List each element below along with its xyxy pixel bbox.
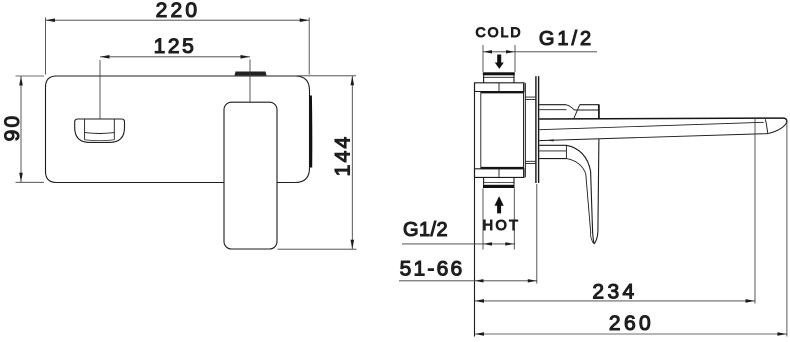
- spout (side view): [539, 118, 787, 141]
- svg-text:125: 125: [154, 35, 197, 58]
- svg-text:51-66: 51-66: [400, 257, 465, 280]
- spout outlet inner line: [765, 119, 767, 133]
- body bottom flange: [475, 169, 525, 178]
- 234 dimension: [475, 119, 756, 304]
- grip front thick edge: [598, 105, 600, 119]
- cold thread: [483, 72, 515, 75]
- handle (front view, end-on): [75, 119, 125, 142]
- hot thread: [483, 185, 515, 188]
- dim line 260: [475, 333, 787, 335]
- ext line spout bottom to 144: [278, 248, 357, 250]
- dim line 144: [351, 76, 353, 249]
- ext line spout tip: [786, 120, 788, 337]
- ext lines cold pipe: [482, 45, 484, 72]
- spout bottom edge: [539, 134, 768, 141]
- hot flow arrow: [495, 196, 504, 213]
- dimension 90: [16, 76, 45, 182]
- svg-text:G1/2: G1/2: [403, 219, 448, 241]
- svg-text:144: 144: [332, 135, 355, 177]
- svg-text:220: 220: [156, 0, 201, 22]
- dimension 125: [100, 55, 250, 119]
- ext line at spout centre: [249, 60, 251, 103]
- wall plate (front view): [46, 76, 310, 183]
- 260 dimension: [475, 120, 787, 337]
- body-plate connecting studs: [525, 97, 535, 164]
- aerator bar on plate top edge: [235, 72, 267, 76]
- ext line at handle centre: [99, 60, 101, 119]
- dimension 220: [46, 18, 310, 75]
- small dark mark under spout at plate: [546, 139, 554, 141]
- dimension 144: [278, 76, 357, 249]
- dim line 90: [20, 76, 22, 182]
- blade front edge: [594, 139, 599, 244]
- svg-text:G1/2: G1/2: [539, 28, 594, 50]
- body main block: [481, 83, 526, 177]
- ext line plate top-left: [16, 75, 45, 77]
- hot G1/2 dimension: [402, 188, 515, 249]
- svg-text:260: 260: [609, 312, 654, 335]
- spout (front view, end-on): [224, 102, 277, 249]
- dim line 125: [100, 56, 250, 58]
- hot inlet fitting: [484, 177, 514, 184]
- blade inner curve: [566, 159, 590, 234]
- handle arm above spout: [539, 105, 599, 119]
- dim line 234: [475, 300, 756, 302]
- spout middle line: [539, 122, 763, 129]
- arm block at plate: [539, 104, 566, 106]
- handle inner bottom arc: [85, 139, 115, 142]
- spout end outer curve: [768, 122, 787, 134]
- spout top edge: [539, 118, 787, 122]
- wall plate (side view): [536, 76, 539, 183]
- svg-text:234: 234: [592, 281, 637, 304]
- ext line left of 220: [45, 18, 47, 75]
- handle inner horizontal line: [85, 132, 115, 135]
- blade back curve: [566, 145, 594, 244]
- arm S-curve: [566, 105, 574, 110]
- lower arm at plate: [539, 145, 566, 158]
- leader line under G1/2: [483, 51, 597, 53]
- arm parting slant: [574, 105, 580, 119]
- plate right edge thick shadow: [310, 96, 313, 168]
- ext line plate for 51-66: [536, 184, 538, 284]
- svg-text:HOT: HOT: [483, 218, 521, 234]
- ext line plate top to 144: [296, 75, 356, 77]
- cold G1/2 dimension: [483, 45, 597, 72]
- handle inner left edge: [84, 119, 86, 140]
- 51-66 dimension: [399, 184, 537, 284]
- dim line 51-66: [399, 280, 537, 282]
- ext line right of 220: [308, 18, 310, 75]
- svg-text:COLD: COLD: [476, 24, 523, 40]
- grip block: [580, 104, 600, 106]
- body top flange: [475, 83, 525, 92]
- svg-text:90: 90: [1, 114, 24, 142]
- valve body back face / extension reference line: [474, 83, 476, 337]
- cold inlet fitting: [484, 75, 514, 83]
- ext lines hot pipe: [482, 188, 484, 249]
- ext line plate bottom-left: [16, 181, 45, 183]
- handle inner right edge: [113, 119, 115, 140]
- blade tip inner tick: [590, 234, 593, 243]
- leader line hot: [402, 243, 515, 245]
- handle blade hanging down: [566, 139, 599, 244]
- dim line 220: [46, 19, 310, 21]
- ext line outlet centre: [754, 119, 756, 304]
- cold flow arrow: [495, 55, 504, 69]
